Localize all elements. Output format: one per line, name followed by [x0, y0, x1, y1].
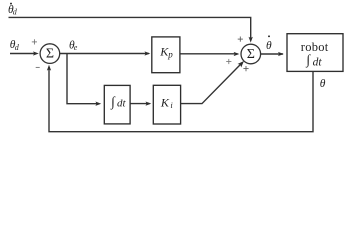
arrowhead Kp wire into S2 left [234, 52, 240, 56]
svg-text:dt: dt [117, 98, 127, 110]
plus sign at S1 input [32, 39, 37, 44]
svg-text:robot: robot [301, 40, 329, 54]
wire integrator to Ki [130, 103, 149, 105]
svg-text:e: e [74, 43, 78, 52]
plus sign at S2 left input [226, 59, 231, 64]
label theta_dot (S2 output) [266, 35, 272, 52]
svg-text:θ: θ [266, 40, 272, 52]
wire feedback loop [49, 67, 313, 132]
svg-text:θ: θ [320, 78, 326, 90]
block Kp [152, 37, 180, 73]
arrowhead into robot [278, 52, 284, 56]
arrowhead into integrator [95, 102, 101, 106]
wire theta_dot_d feedforward (top) [9, 17, 251, 40]
block Ki [153, 85, 180, 124]
arrowhead into Kp [145, 51, 151, 55]
wire S2 to robot [261, 53, 283, 55]
block integrator [104, 85, 130, 124]
label theta_e [69, 39, 78, 52]
svg-text:K: K [160, 96, 170, 110]
arrowhead theta_d into S1 [33, 51, 39, 55]
arrowhead diagonal into S2 [238, 61, 244, 68]
summing junction S2 [241, 44, 261, 64]
svg-text:Σ: Σ [46, 47, 54, 62]
plus sign at S2 top input [238, 37, 243, 42]
svg-text:dt: dt [313, 57, 323, 69]
wire theta_d input [10, 53, 35, 55]
arrowhead feedback into S1 bottom [47, 65, 51, 71]
wire branch theta_e to integrator [67, 54, 99, 104]
plus sign at S2 diagonal input [243, 66, 248, 71]
summing junction S1 [40, 44, 60, 64]
svg-text:p: p [167, 49, 173, 59]
block robot [287, 34, 343, 72]
svg-text:d: d [15, 43, 20, 52]
wire S1 to Kp [60, 53, 149, 55]
minus sign at S1 feedback [36, 66, 40, 68]
arrowhead theta_dot_d into S2 top [249, 37, 253, 43]
wire Kp to S2 [180, 53, 238, 55]
label theta_dot_d [8, 3, 18, 17]
wire Ki to S2 diagonal [181, 62, 243, 103]
arrowhead into Ki [146, 101, 152, 105]
label theta_d [10, 39, 20, 52]
svg-text:Σ: Σ [247, 47, 255, 62]
svg-text:d: d [13, 8, 18, 17]
